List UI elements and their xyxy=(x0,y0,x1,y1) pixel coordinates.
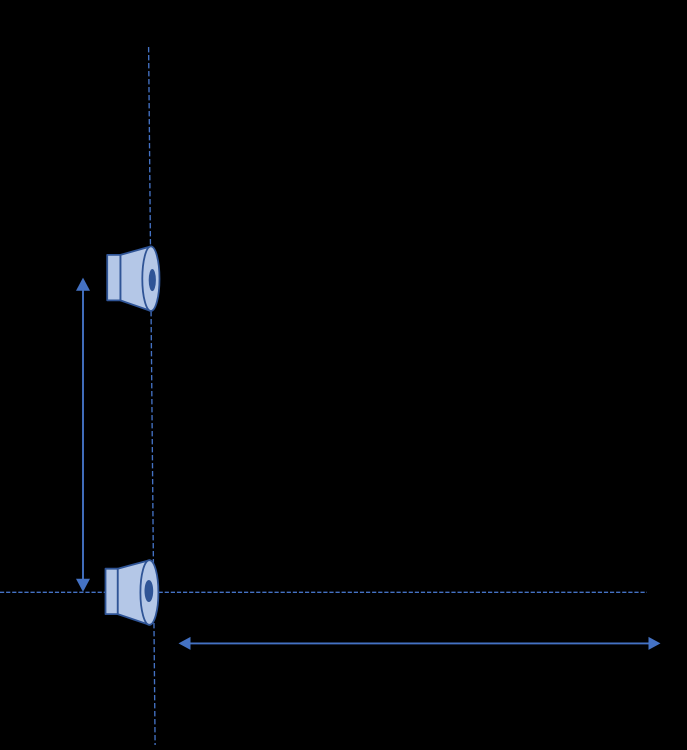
horizontal dashed listener axis xyxy=(0,591,647,593)
speaker S1 horn trapezoid xyxy=(120,246,150,311)
speaker S1 back rectangle xyxy=(107,255,120,301)
speaker S2 (bottom) xyxy=(106,560,159,625)
speaker S1 front ellipse xyxy=(142,246,159,311)
horizontal distance arrow (listener distance) xyxy=(179,637,661,650)
speaker S1 driver ellipse xyxy=(149,269,156,291)
speaker S2 back rectangle xyxy=(106,569,118,614)
vertical dashed speaker axis xyxy=(149,47,156,745)
speaker S2 front ellipse xyxy=(140,560,158,625)
speaker S2 driver ellipse xyxy=(145,580,154,602)
speaker S2 horn trapezoid xyxy=(118,560,150,625)
speaker S1 (top) xyxy=(107,246,159,311)
vertical distance arrow (speaker separation) xyxy=(76,278,90,592)
